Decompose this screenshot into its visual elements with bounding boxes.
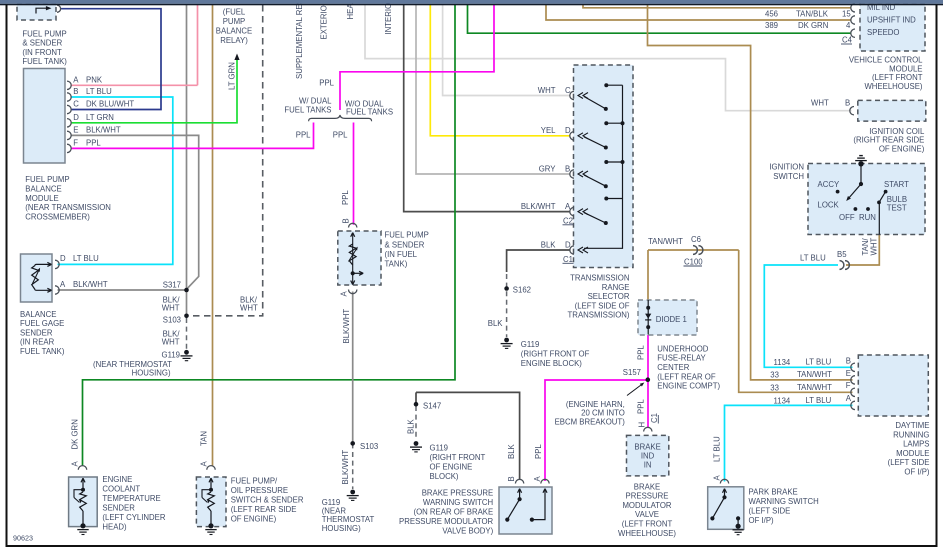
svg-text:BALANCE: BALANCE (25, 184, 61, 193)
svg-text:BLK: BLK (407, 418, 416, 434)
svg-text:DK BLU/WHT: DK BLU/WHT (86, 100, 134, 109)
svg-text:E: E (73, 126, 78, 135)
svg-text:H: H (638, 422, 647, 428)
svg-text:OF ENGINE): OF ENGINE) (231, 514, 277, 523)
svg-text:D: D (73, 113, 79, 122)
svg-text:TEST: TEST (887, 203, 907, 212)
svg-text:EBCM BREAKOUT): EBCM BREAKOUT) (555, 417, 626, 426)
svg-text:IGNITION COIL: IGNITION COIL (869, 127, 925, 136)
svg-text:B: B (73, 87, 78, 96)
svg-text:(IN FRONT: (IN FRONT (22, 48, 62, 57)
svg-text:PRESSURE MODULATOR: PRESSURE MODULATOR (399, 517, 494, 526)
svg-text:ENGINE: ENGINE (102, 475, 132, 484)
svg-text:LT GRN: LT GRN (86, 113, 114, 122)
svg-text:MODULATOR: MODULATOR (622, 501, 671, 510)
svg-text:389: 389 (765, 21, 778, 30)
svg-text:33: 33 (770, 371, 779, 380)
svg-text:MODULE: MODULE (25, 194, 58, 203)
svg-text:LT BLU: LT BLU (713, 436, 722, 462)
svg-text:S103: S103 (360, 442, 378, 451)
svg-text:A: A (340, 291, 349, 297)
svg-text:(LEFT SIDE: (LEFT SIDE (749, 507, 791, 516)
svg-text:(ENGINE HARN,: (ENGINE HARN, (566, 400, 625, 409)
svg-text:WHT: WHT (870, 238, 879, 256)
svg-text:MODULE: MODULE (889, 64, 922, 73)
svg-text:PPL: PPL (534, 444, 543, 459)
svg-text:& SENDER: & SENDER (385, 240, 425, 249)
svg-text:HOUSING): HOUSING) (132, 369, 171, 378)
svg-text:IND: IND (641, 451, 655, 460)
svg-text:BLK/WHT: BLK/WHT (521, 202, 556, 211)
svg-text:LT BLU: LT BLU (806, 396, 832, 405)
svg-text:BRAKE PRESSURE: BRAKE PRESSURE (422, 489, 494, 498)
svg-text:BLK: BLK (507, 443, 516, 459)
svg-text:B: B (342, 218, 351, 223)
svg-text:MODULE: MODULE (896, 449, 929, 458)
svg-text:START: START (884, 180, 909, 189)
svg-text:33: 33 (770, 383, 779, 392)
svg-text:D: D (565, 240, 571, 249)
svg-text:(ON REAR OF BRAKE: (ON REAR OF BRAKE (413, 508, 493, 517)
svg-text:OIL PRESSURE: OIL PRESSURE (231, 486, 288, 495)
svg-text:TAN/WHT: TAN/WHT (797, 370, 832, 379)
svg-text:FUEL TANK): FUEL TANK) (20, 347, 65, 356)
svg-text:OF ENGINE): OF ENGINE) (879, 144, 925, 153)
svg-text:(IN FUEL: (IN FUEL (385, 250, 418, 259)
svg-text:TAN/WHT: TAN/WHT (648, 237, 683, 246)
svg-text:DIODE 1: DIODE 1 (656, 315, 687, 324)
svg-text:B5: B5 (837, 250, 847, 259)
svg-text:PPL: PPL (637, 345, 646, 360)
svg-text:ENGINE BLOCK): ENGINE BLOCK) (521, 359, 582, 368)
svg-text:BALANCE: BALANCE (216, 27, 252, 36)
svg-text:& SENDER: & SENDER (22, 39, 62, 48)
svg-text:PRESSURE: PRESSURE (626, 492, 669, 501)
svg-text:LT BLU: LT BLU (73, 254, 99, 263)
svg-text:A: A (71, 461, 80, 467)
svg-text:(LEFT FRONT: (LEFT FRONT (872, 73, 923, 82)
svg-text:FUEL TANKS: FUEL TANKS (346, 107, 393, 116)
svg-text:F: F (73, 139, 78, 148)
svg-text:EXTERIO: EXTERIO (320, 5, 329, 39)
svg-text:OFF: OFF (839, 213, 855, 222)
svg-text:4: 4 (846, 21, 851, 30)
svg-text:HOUSING): HOUSING) (322, 524, 361, 533)
svg-text:PPL: PPL (86, 139, 101, 148)
svg-text:BLOCK): BLOCK) (430, 472, 459, 481)
svg-text:B: B (846, 357, 851, 366)
svg-text:PUMP: PUMP (223, 17, 246, 26)
svg-text:PPL: PPL (333, 130, 348, 139)
svg-text:C2: C2 (563, 217, 573, 226)
svg-text:LAMPS: LAMPS (903, 440, 929, 449)
svg-text:UNDERHOOD: UNDERHOOD (657, 344, 708, 353)
svg-text:SELECTOR: SELECTOR (588, 292, 630, 301)
svg-text:WHT: WHT (240, 304, 258, 313)
svg-text:WHEELHOUSE): WHEELHOUSE) (618, 529, 676, 538)
svg-text:BLK/WHT: BLK/WHT (73, 280, 108, 289)
svg-text:A: A (73, 76, 79, 85)
svg-text:DK GRN: DK GRN (798, 21, 828, 30)
svg-text:WHT: WHT (811, 98, 829, 107)
svg-text:(LEFT SIDE: (LEFT SIDE (888, 458, 930, 467)
svg-text:S162: S162 (513, 286, 531, 295)
svg-text:A: A (565, 202, 571, 211)
svg-text:B: B (845, 98, 850, 107)
svg-text:C4: C4 (842, 36, 853, 45)
svg-text:RUNNING: RUNNING (893, 430, 929, 439)
svg-text:BRAKE: BRAKE (634, 482, 660, 491)
svg-text:(LEFT REAR SIDE: (LEFT REAR SIDE (231, 505, 297, 514)
svg-text:YEL: YEL (541, 126, 556, 135)
svg-text:C1: C1 (563, 255, 573, 264)
svg-text:F: F (846, 381, 851, 390)
svg-text:WHT: WHT (162, 304, 180, 313)
svg-text:WARNING SWITCH: WARNING SWITCH (423, 498, 493, 507)
svg-text:VEHICLE CONTROL: VEHICLE CONTROL (849, 56, 923, 65)
svg-text:SENDER: SENDER (20, 328, 53, 337)
svg-text:CENTER: CENTER (657, 363, 689, 372)
svg-text:OF I/P): OF I/P) (749, 516, 775, 525)
svg-text:BLK/WHT: BLK/WHT (86, 126, 121, 135)
svg-text:COOLANT: COOLANT (102, 485, 140, 494)
svg-text:S147: S147 (423, 402, 441, 411)
svg-text:SENDER: SENDER (102, 504, 135, 513)
svg-text:TAN: TAN (200, 431, 209, 446)
svg-text:LT BLU: LT BLU (800, 253, 826, 262)
svg-text:TRANSMISSION: TRANSMISSION (570, 274, 629, 283)
svg-text:FUEL GAGE: FUEL GAGE (20, 319, 64, 328)
svg-text:(LEFT REAR OF: (LEFT REAR OF (657, 372, 716, 381)
svg-text:BALANCE: BALANCE (20, 310, 56, 319)
svg-text:GRY: GRY (539, 164, 557, 173)
svg-text:VALVE: VALVE (635, 510, 659, 519)
svg-text:B: B (507, 476, 516, 481)
svg-text:WHEELHOUSE): WHEELHOUSE) (864, 82, 922, 91)
svg-text:(RIGHT FRONT: (RIGHT FRONT (430, 453, 486, 462)
svg-text:FUEL PUMP: FUEL PUMP (385, 231, 429, 240)
svg-text:A: A (713, 475, 722, 481)
svg-text:(RIGHT REAR SIDE: (RIGHT REAR SIDE (853, 136, 924, 145)
svg-text:C1: C1 (650, 413, 659, 423)
svg-text:SWITCH: SWITCH (773, 172, 804, 181)
svg-text:DAYTIME: DAYTIME (895, 421, 929, 430)
svg-text:1134: 1134 (774, 358, 791, 367)
svg-text:FUSE-RELAY: FUSE-RELAY (657, 354, 706, 363)
svg-text:UPSHIFT IND: UPSHIFT IND (867, 16, 916, 25)
svg-text:C: C (565, 86, 571, 95)
svg-text:TEMPERATURE: TEMPERATURE (102, 494, 160, 503)
svg-text:BRAKE: BRAKE (634, 442, 660, 451)
svg-text:PPL: PPL (341, 190, 350, 205)
svg-text:LT GRN: LT GRN (228, 62, 237, 90)
svg-text:S103: S103 (163, 316, 181, 325)
svg-text:20 CM INTO: 20 CM INTO (581, 409, 625, 418)
svg-text:FUEL PUMP: FUEL PUMP (22, 29, 66, 38)
svg-text:D: D (60, 254, 66, 263)
svg-text:FUEL PUMP: FUEL PUMP (25, 175, 69, 184)
svg-text:IGNITION: IGNITION (769, 163, 804, 172)
svg-text:E: E (846, 369, 851, 378)
svg-text:HEAD): HEAD) (102, 523, 127, 532)
svg-text:DK GRN: DK GRN (71, 419, 80, 449)
svg-text:INTERIO: INTERIO (384, 3, 393, 35)
svg-text:OF I/P): OF I/P) (904, 468, 930, 477)
svg-text:A: A (60, 280, 66, 289)
svg-text:G119: G119 (162, 351, 181, 360)
svg-text:W/ DUAL: W/ DUAL (299, 96, 332, 105)
svg-text:OF ENGINE: OF ENGINE (430, 463, 473, 472)
svg-text:FUEL TANKS: FUEL TANKS (284, 106, 331, 115)
svg-text:PPL: PPL (637, 399, 646, 414)
svg-text:C100: C100 (684, 258, 703, 267)
svg-text:IN: IN (644, 461, 652, 470)
svg-text:1134: 1134 (774, 397, 791, 406)
svg-text:RELAY): RELAY) (220, 36, 248, 45)
svg-text:456: 456 (765, 10, 778, 19)
svg-text:SPEEDO: SPEEDO (867, 28, 900, 37)
svg-text:(LEFT FRONT: (LEFT FRONT (622, 520, 673, 529)
svg-text:ENGINE COMPT): ENGINE COMPT) (657, 382, 720, 391)
svg-text:RANGE: RANGE (602, 283, 630, 292)
svg-text:15: 15 (842, 10, 851, 19)
svg-text:TRANSMISSION): TRANSMISSION) (568, 311, 630, 320)
svg-text:S317: S317 (163, 281, 181, 290)
svg-text:(FUEL: (FUEL (223, 8, 246, 17)
svg-text:BLK: BLK (488, 319, 504, 328)
svg-text:PPL: PPL (319, 79, 334, 88)
svg-text:BLK/WHT: BLK/WHT (341, 450, 350, 485)
svg-text:LT BLU: LT BLU (86, 87, 112, 96)
svg-text:(LEFT SIDE OF: (LEFT SIDE OF (575, 301, 630, 310)
svg-text:ACCY: ACCY (818, 180, 840, 189)
svg-text:(NEAR THERMOSTAT: (NEAR THERMOSTAT (93, 360, 172, 369)
svg-text:FUEL PUMP/: FUEL PUMP/ (231, 476, 278, 485)
svg-text:WHT: WHT (162, 338, 180, 347)
svg-text:C6: C6 (691, 235, 701, 244)
svg-text:TAN/WHT: TAN/WHT (797, 383, 832, 392)
svg-text:LT BLU: LT BLU (806, 358, 832, 367)
svg-text:SUPPLEMENTAL RES: SUPPLEMENTAL RES (295, 0, 304, 79)
svg-text:PPL: PPL (296, 130, 311, 139)
svg-text:G119: G119 (430, 444, 449, 453)
svg-text:CROSSMEMBER): CROSSMEMBER) (25, 213, 90, 222)
svg-text:D: D (565, 126, 571, 135)
svg-text:VALVE BODY): VALVE BODY) (442, 527, 493, 536)
svg-text:TAN/BLK: TAN/BLK (796, 10, 829, 19)
svg-text:B: B (565, 164, 570, 173)
svg-text:90623: 90623 (13, 534, 33, 543)
svg-text:BLK: BLK (541, 240, 557, 249)
svg-text:A: A (533, 476, 542, 482)
svg-text:TANK): TANK) (385, 260, 408, 269)
svg-text:(RIGHT FRONT OF: (RIGHT FRONT OF (521, 350, 590, 359)
svg-text:(IN REAR: (IN REAR (20, 338, 55, 347)
svg-text:C: C (73, 100, 79, 109)
svg-text:BLK/WHT: BLK/WHT (342, 309, 351, 344)
svg-text:PNK: PNK (86, 76, 103, 85)
svg-text:(NEAR TRANSMISSION: (NEAR TRANSMISSION (25, 203, 111, 212)
svg-text:SWITCH & SENDER: SWITCH & SENDER (231, 495, 304, 504)
svg-text:(LEFT CYLINDER: (LEFT CYLINDER (102, 513, 165, 522)
svg-text:S157: S157 (623, 368, 641, 377)
svg-text:FUEL TANK): FUEL TANK) (22, 57, 67, 66)
svg-text:WARNING SWITCH: WARNING SWITCH (749, 497, 819, 506)
svg-text:RUN: RUN (859, 213, 876, 222)
svg-text:A: A (200, 461, 209, 467)
svg-text:LOCK: LOCK (818, 201, 840, 210)
svg-text:G119: G119 (521, 340, 540, 349)
svg-text:A: A (846, 394, 852, 403)
svg-text:PARK BRAKE: PARK BRAKE (749, 487, 798, 496)
svg-text:WHT: WHT (538, 86, 556, 95)
